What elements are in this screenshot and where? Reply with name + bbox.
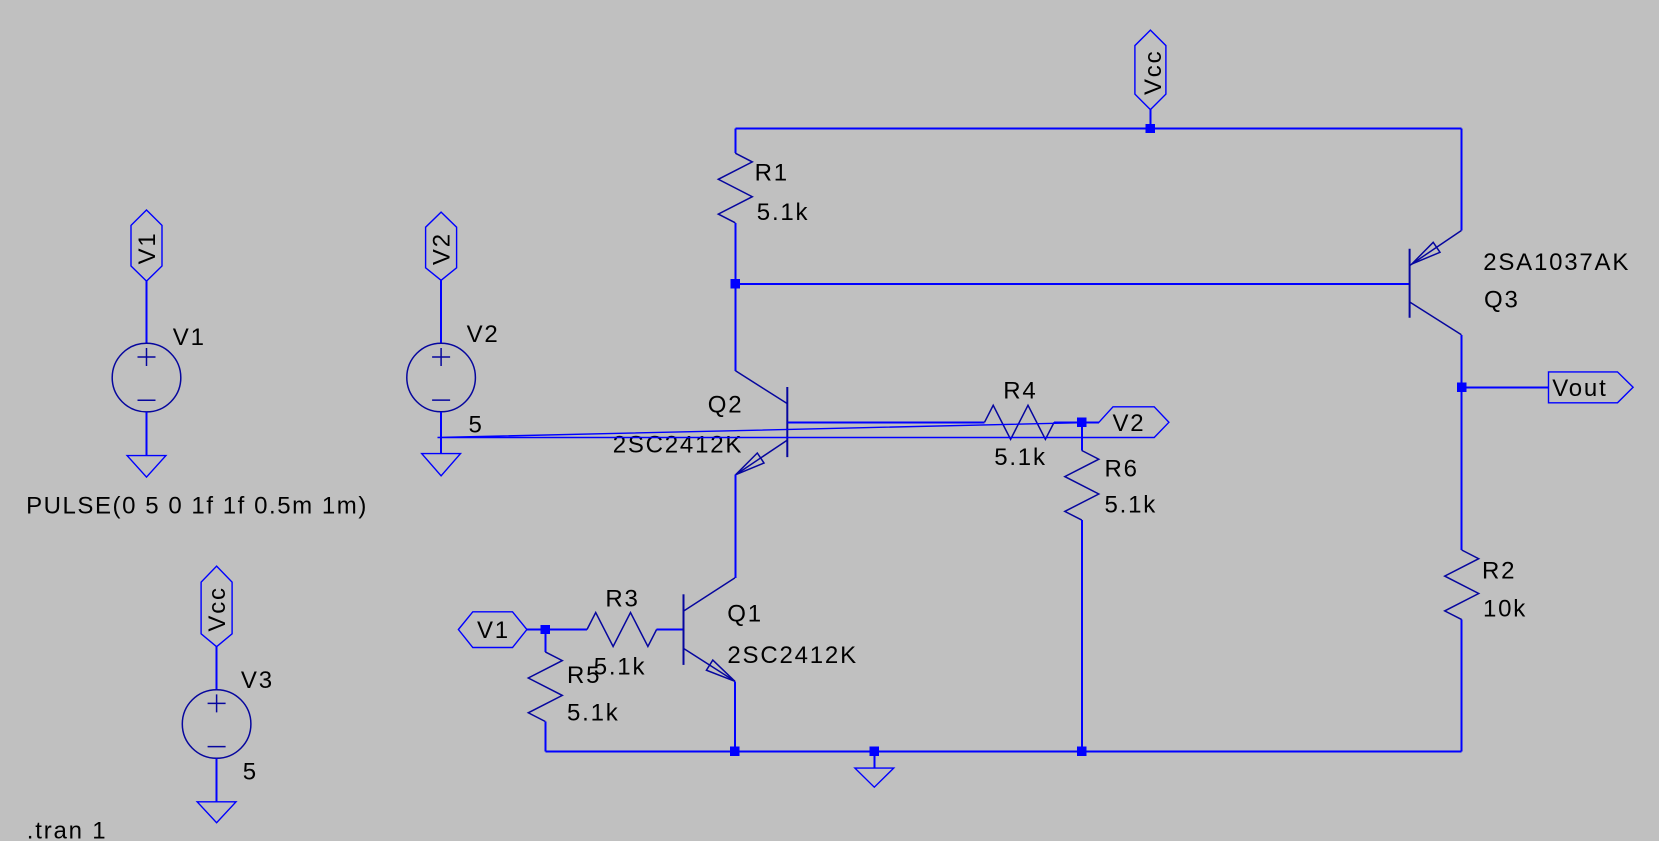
- svg-text:Vcc: Vcc: [204, 586, 231, 631]
- svg-text:.tran 1: .tran 1: [27, 818, 108, 841]
- wire V1 flag to R3: [527, 629, 587, 631]
- wire Q2 base to R4: [787, 421, 984, 423]
- node V2 flag source: [426, 212, 457, 280]
- junction R4 / R6: [1077, 418, 1086, 427]
- svg-text:V2: V2: [429, 232, 456, 265]
- resistor R1: [718, 153, 809, 226]
- wire Q3 emitter from top rail: [1460, 129, 1462, 231]
- junction top rail / Vcc: [1146, 124, 1155, 133]
- wire R1 top stub: [734, 129, 736, 154]
- node Vcc flag top: [1135, 30, 1167, 128]
- wire bottom rail: [545, 750, 1461, 752]
- svg-text:Q2: Q2: [708, 391, 744, 418]
- svg-text:V1: V1: [477, 617, 510, 644]
- wire R3 to Q1 base: [657, 629, 684, 631]
- ground V1: [127, 456, 166, 478]
- voltage source V3: [182, 667, 274, 785]
- svg-text:R1: R1: [755, 159, 789, 186]
- svg-text:R3: R3: [605, 586, 639, 613]
- wire R2 bottom: [1461, 620, 1463, 752]
- svg-text:2SC2412K: 2SC2412K: [613, 431, 744, 458]
- svg-text:5: 5: [243, 758, 258, 785]
- svg-text:R4: R4: [1003, 378, 1037, 405]
- svg-text:5.1k: 5.1k: [994, 444, 1047, 471]
- svg-text:V1: V1: [173, 324, 206, 351]
- resistor R3: [587, 586, 657, 681]
- wire V1 source to ground: [146, 412, 148, 456]
- ground V3: [197, 802, 236, 823]
- svg-text:5.1k: 5.1k: [757, 199, 810, 226]
- voltage source V2: [407, 321, 500, 438]
- svg-text:5.1k: 5.1k: [567, 700, 620, 727]
- svg-text:R6: R6: [1105, 455, 1139, 482]
- resistor R2: [1445, 550, 1527, 622]
- wire ground stem: [873, 751, 875, 768]
- wire junction to R6: [1081, 422, 1083, 450]
- wire top rail Vcc: [735, 128, 1461, 130]
- svg-text:V2: V2: [467, 321, 500, 348]
- svg-text:Q1: Q1: [727, 601, 763, 628]
- svg-text:PULSE(0 5 0 1f 1f 0.5m 1m): PULSE(0 5 0 1f 1f 0.5m 1m): [26, 492, 368, 519]
- svg-text:Vcc: Vcc: [1140, 50, 1167, 95]
- wire R5 bottom to rail: [544, 722, 546, 752]
- transistor Q3 2SA1037AK: [1410, 231, 1631, 335]
- svg-text:2SA1037AK: 2SA1037AK: [1483, 249, 1630, 276]
- junction R1 bottom: [731, 279, 740, 288]
- wire V2 source to ground: [440, 412, 442, 454]
- wire Q2 emitter to Q1 collector: [734, 475, 736, 578]
- resistor R6: [1065, 451, 1157, 521]
- wire to Vout flag: [1462, 386, 1549, 388]
- node V2 flag right: [438, 407, 1169, 438]
- transistor Q2 2SC2412K: [613, 371, 788, 475]
- junction ground rail: [870, 747, 879, 756]
- wire R4 to V2 flag: [1054, 421, 1099, 423]
- wire Vcc flag to source: [216, 647, 218, 690]
- svg-text:R5: R5: [567, 662, 601, 689]
- value label V1 PULSE: [26, 492, 368, 519]
- junction V1 / R5: [541, 625, 550, 634]
- svg-text:V2: V2: [1113, 410, 1146, 437]
- wire Q2 collector up: [734, 284, 736, 371]
- svg-text:R2: R2: [1482, 557, 1516, 584]
- svg-text:5: 5: [469, 411, 484, 438]
- node V1 flag source: [131, 210, 162, 281]
- svg-text:5.1k: 5.1k: [594, 654, 647, 681]
- junction Vout: [1457, 383, 1466, 392]
- junction Q1 emitter rail: [730, 747, 739, 756]
- wire Q3 collector down: [1460, 335, 1462, 550]
- wire V3 source to ground: [216, 758, 218, 802]
- junction R6 bottom rail: [1077, 747, 1086, 756]
- svg-text:10k: 10k: [1483, 595, 1527, 622]
- wire base rail to Q3: [735, 283, 1409, 285]
- directive .tran: [27, 818, 108, 841]
- svg-text:V1: V1: [134, 231, 161, 264]
- wire V1 flag to source: [146, 281, 148, 344]
- svg-text:Q3: Q3: [1484, 287, 1520, 314]
- wire V2 flag to source: [440, 280, 442, 343]
- node Vout flag: [1549, 372, 1634, 403]
- transistor Q1 2SC2412K: [684, 578, 858, 681]
- wire R6 bottom to rail: [1081, 520, 1083, 751]
- voltage source V1: [112, 324, 206, 412]
- ground V2: [422, 454, 461, 476]
- node Vcc flag source: [201, 566, 232, 647]
- ground main: [855, 768, 894, 787]
- wire junction to R5: [544, 630, 546, 652]
- svg-text:Vout: Vout: [1552, 375, 1607, 402]
- svg-text:V3: V3: [241, 667, 274, 694]
- svg-text:2SC2412K: 2SC2412K: [727, 642, 858, 669]
- svg-text:5.1k: 5.1k: [1105, 491, 1158, 518]
- wire R1 bottom to node: [734, 223, 736, 284]
- resistor R4: [985, 378, 1055, 472]
- node V1 flag input: [458, 612, 527, 648]
- resistor R5: [528, 652, 619, 727]
- wire Q1 emitter down: [734, 681, 736, 751]
